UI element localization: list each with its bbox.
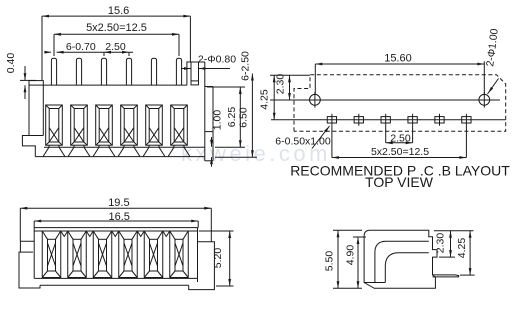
side view inner bend 1: [375, 241, 429, 282]
dim line 5x2.50: [54, 33, 179, 35]
extension line pin6: [178, 34, 180, 56]
ext pin3: [103, 52, 105, 56]
left wall outer: [28, 85, 30, 135]
dim line 5.50: [337, 230, 339, 288]
svg-text:15.6: 15.6: [108, 5, 129, 17]
channel bottom box: [191, 81, 199, 85]
ext 19.5 left: [19, 208, 21, 241]
svg-text:2.30: 2.30: [435, 233, 447, 254]
pin 3: [101, 58, 106, 85]
dim line 4.25 side: [469, 231, 471, 275]
svg-text:5x2.50=12.5: 5x2.50=12.5: [371, 146, 429, 158]
left wall inner: [42, 85, 44, 135]
dim line 6.50: [251, 74, 253, 158]
ext 5.20 top: [199, 230, 234, 232]
left foot step: [20, 251, 33, 253]
smt lead: [433, 275, 459, 277]
contact slot 1 bottom view: [42, 231, 61, 278]
bottom taper 1: [43, 147, 49, 156]
ext 5.50 top: [333, 229, 362, 231]
dim line 4.90: [357, 237, 359, 288]
pin 5: [151, 58, 156, 85]
dim 1.00 upper: [211, 137, 213, 147]
bottom inner line: [44, 146, 205, 148]
top-left tab: [29, 81, 43, 86]
extension line left 15.6: [41, 16, 43, 80]
channel right wall: [198, 62, 200, 81]
svg-text:15.60: 15.60: [384, 53, 412, 65]
leader 0.8 left: [181, 68, 191, 70]
body2 right edge: [197, 228, 199, 282]
ext 2.30 bottom: [439, 256, 455, 258]
bottom taper 6: [168, 147, 174, 156]
pin 4: [126, 58, 131, 85]
contact slot 5 front: [146, 105, 163, 145]
dim line 0.40 upper: [24, 66, 26, 80]
pin 2: [76, 58, 81, 85]
end block bottom: [205, 160, 213, 162]
pin 6: [176, 58, 181, 85]
pad 6: [462, 117, 471, 123]
dim line 5.20: [229, 231, 231, 286]
extension line pin1: [53, 34, 55, 56]
svg-text:5.50: 5.50: [324, 251, 336, 272]
dim line 2.50 pcb: [386, 142, 413, 144]
ext tab top: [20, 79, 36, 81]
body bottom edge: [35, 156, 205, 158]
ext 5.20 bottom: [216, 285, 234, 287]
mount hole left: [310, 94, 321, 105]
svg-text:19.5: 19.5: [108, 197, 129, 209]
ext pin4: [128, 52, 130, 56]
svg-text:0.40: 0.40: [5, 53, 17, 74]
notch 1: [61, 231, 68, 237]
contact slot 2 bottom view: [68, 231, 87, 278]
end block mid line: [205, 131, 213, 133]
body2 left edge: [33, 228, 35, 279]
svg-text:5x2.50=12.5: 5x2.50=12.5: [86, 22, 147, 34]
body top edge: [43, 84, 187, 86]
dim line 0.70 right: [57, 51, 133, 53]
hole left cross: [314, 92, 316, 108]
body right edge: [204, 62, 206, 161]
contact slot 4 bottom view: [119, 231, 138, 278]
body2 bottom under slots: [34, 277, 197, 279]
svg-text:2.30: 2.30: [274, 74, 286, 95]
svg-text:1.00: 1.00: [212, 110, 224, 131]
contact slot 4 front: [121, 105, 138, 145]
dim line 4.25 pcb: [273, 75, 275, 120]
pad 3: [381, 117, 390, 123]
contact slot 6 front: [171, 105, 188, 145]
ext 6.50 bottom: [215, 156, 257, 158]
notch 5: [163, 231, 170, 237]
dim 1.00 lower: [211, 157, 213, 167]
svg-text:6-0.70: 6-0.70: [66, 41, 96, 53]
pad centerline: [271, 119, 506, 121]
pad 5: [435, 117, 444, 123]
contact slot 3 front: [96, 105, 113, 145]
base plate bottom: [40, 284, 189, 286]
pad 4: [408, 117, 417, 123]
ext 5.50 bottom: [333, 287, 362, 289]
right foot: [189, 242, 215, 290]
bottom taper 3: [93, 147, 99, 156]
dim line 15.6: [42, 15, 190, 17]
ext 6.25 bottom: [215, 146, 245, 148]
svg-text:2-Φ0.80: 2-Φ0.80: [198, 54, 236, 66]
ext 15.60 right: [483, 61, 485, 94]
contact slot 5 bottom view: [144, 231, 163, 278]
leader 0.8 right: [199, 68, 231, 70]
pad 1: [327, 117, 336, 123]
leader 2-phi1.00: [488, 79, 499, 95]
ext dims top: [270, 74, 310, 76]
hole right cross: [483, 92, 485, 108]
notch 4: [137, 231, 144, 237]
svg-text:5.20: 5.20: [212, 248, 224, 269]
left step top: [22, 135, 43, 137]
contact slot 2 front: [71, 105, 88, 145]
contact slot 3 bottom view: [93, 231, 112, 278]
left foot: [19, 241, 40, 288]
ext 16.5 left: [33, 221, 35, 228]
right tower: [187, 62, 205, 85]
hole centerline: [270, 99, 500, 101]
dim line 6.25: [239, 87, 241, 147]
svg-text:6.50: 6.50: [238, 107, 250, 128]
svg-text:TOP VIEW: TOP VIEW: [365, 174, 434, 190]
end block top: [205, 86, 213, 88]
contact slot 6 bottom view: [170, 231, 189, 278]
leader pad1: [312, 126, 330, 149]
bottom taper 4: [118, 147, 124, 156]
svg-text:6.25: 6.25: [226, 107, 238, 128]
inner bottom line: [364, 282, 385, 284]
ext 19.5 right: [210, 208, 212, 241]
dim line 0.70 left: [45, 51, 51, 53]
svg-text:4.25: 4.25: [259, 89, 271, 110]
bottom taper 5: [143, 147, 149, 156]
dim line 0.40 lower: [24, 85, 26, 99]
ext pad6: [465, 126, 467, 158]
ext 4.25 bottom: [460, 274, 475, 276]
pin 1: [51, 58, 56, 85]
end block right edge: [212, 87, 214, 161]
ext pad3: [385, 126, 387, 143]
ext 16.5 right: [197, 221, 199, 228]
ext 2.30 top: [434, 230, 474, 232]
dim line 15.60: [315, 63, 484, 65]
dim line 16.5: [34, 220, 198, 222]
ext pad1: [331, 126, 333, 158]
ext 15.60 left: [314, 64, 316, 94]
svg-text:4.90: 4.90: [345, 245, 357, 266]
dim line 2.30 pcb: [289, 75, 291, 100]
dashed PCB outline: [294, 75, 506, 131]
mount hole right: [479, 94, 490, 105]
ext 6.25 top: [207, 86, 245, 88]
notch 3: [112, 231, 119, 237]
svg-text:4.25: 4.25: [456, 238, 468, 259]
body2 top edge: [34, 230, 198, 232]
channel left wall: [190, 62, 192, 81]
notch 2: [86, 231, 93, 237]
body2 top rim: [34, 227, 198, 229]
pad 2: [354, 117, 363, 123]
dim line 5x2.50 pcb: [332, 157, 467, 159]
ext 4.90 top: [353, 236, 366, 238]
left step: [22, 136, 35, 157]
extension line right 15.6: [189, 16, 191, 62]
svg-text:6-2.50: 6-2.50: [240, 51, 252, 81]
side view outer profile: [364, 230, 437, 288]
contact slot 1 front: [46, 105, 63, 145]
bottom taper 2: [68, 147, 74, 156]
dim line 2.30 side: [450, 231, 452, 257]
side view inner bend 2: [385, 253, 429, 283]
ext pad4: [412, 126, 414, 143]
svg-text:6-0.50x1.00: 6-0.50x1.00: [275, 136, 331, 148]
dim line 19.5: [20, 207, 211, 209]
